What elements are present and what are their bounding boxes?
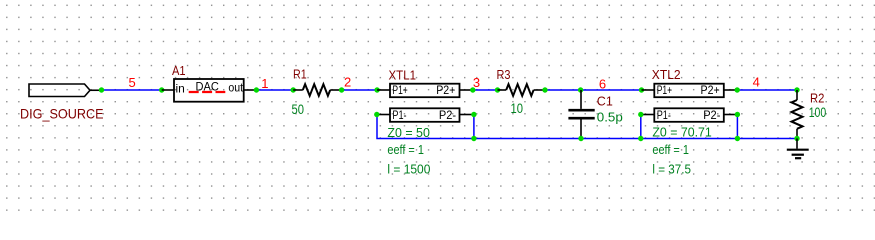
capacitor C1: [568, 90, 594, 139]
junction dot: [470, 87, 475, 92]
port DIG_SOURCE: [29, 84, 102, 97]
wire drop XTL2 P1-: [640, 115, 642, 139]
svg-text:4: 4: [753, 75, 760, 90]
svg-text:P2-: P2-: [703, 110, 720, 122]
svg-text:2: 2: [344, 75, 351, 90]
svg-text:0.5p: 0.5p: [597, 110, 623, 125]
junction dot: [471, 136, 476, 141]
svg-text:eeff = 1: eeff = 1: [652, 142, 689, 157]
svg-text:P1+: P1+: [392, 85, 408, 97]
junction dot: [159, 87, 164, 92]
svg-text:6: 6: [599, 77, 606, 92]
resistor R2: [792, 90, 803, 139]
junction dot: [794, 87, 799, 92]
svg-text:P2-: P2-: [439, 110, 456, 122]
junction dot: [735, 87, 740, 92]
junction dot: [578, 87, 583, 92]
svg-text:P2+: P2+: [436, 85, 455, 97]
wire net 3: [473, 89, 498, 91]
svg-text:100: 100: [809, 105, 827, 120]
svg-text:out: out: [228, 83, 243, 95]
svg-text:1: 1: [261, 76, 268, 91]
junction dot: [794, 136, 799, 141]
svg-text:R2: R2: [810, 91, 824, 106]
junction dot: [471, 112, 476, 117]
DAC A1: [162, 79, 257, 102]
wire drop XTL1 P2-: [473, 115, 475, 139]
svg-text:10: 10: [511, 101, 524, 116]
svg-text:Z0 = 70.71: Z0 = 70.71: [652, 124, 711, 139]
wire net 5: [102, 89, 162, 91]
junction dot: [639, 87, 644, 92]
wire net 6: [545, 89, 642, 91]
wire drop XTL2 P2-: [736, 115, 738, 139]
junction dot: [374, 87, 379, 92]
svg-text:R3: R3: [497, 67, 511, 82]
junction dot: [638, 136, 643, 141]
DAC red dashed marking: [189, 91, 226, 93]
junction dot: [374, 112, 379, 117]
junction dot: [99, 87, 104, 92]
svg-text:DIG_SOURCE: DIG_SOURCE: [20, 106, 104, 122]
svg-text:5: 5: [129, 75, 136, 90]
junction dot: [735, 112, 740, 117]
svg-text:A1: A1: [172, 63, 186, 78]
junction dot: [254, 87, 259, 92]
transmission line XTL2: [641, 84, 738, 122]
svg-text:eeff = 1: eeff = 1: [387, 142, 424, 157]
svg-text:l = 37.5: l = 37.5: [652, 161, 691, 176]
junction dot: [291, 87, 296, 92]
svg-text:50: 50: [292, 102, 305, 117]
resistor R1: [293, 84, 341, 96]
transmission line XTL1: [377, 84, 474, 122]
resistor R3: [498, 84, 546, 96]
svg-text:P2+: P2+: [701, 85, 720, 97]
svg-text:P1-: P1-: [392, 110, 406, 122]
ground: [787, 139, 809, 159]
wire net 2: [342, 89, 378, 91]
junction dot: [495, 87, 500, 92]
svg-text:in: in: [176, 82, 185, 96]
svg-text:P1+: P1+: [657, 85, 673, 97]
wire net 1: [256, 89, 293, 91]
junction dot: [542, 87, 547, 92]
junction dot: [578, 136, 583, 141]
svg-text:R1: R1: [293, 66, 307, 81]
wire net 4: [737, 89, 797, 91]
svg-text:P1-: P1-: [657, 110, 671, 122]
svg-text:XTL1: XTL1: [389, 68, 417, 83]
wire bottom bus: [377, 115, 797, 139]
svg-text:XTL2: XTL2: [652, 67, 681, 82]
junction dot: [735, 136, 740, 141]
junction dot: [638, 112, 643, 117]
svg-text:l = 1500: l = 1500: [387, 161, 430, 176]
svg-text:C1: C1: [597, 93, 613, 108]
junction dot: [339, 87, 344, 92]
